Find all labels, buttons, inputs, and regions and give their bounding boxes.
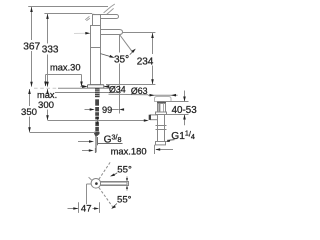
arrow 333 up xyxy=(46,14,49,19)
G1 1/4 leader line xyxy=(167,139,175,142)
drain upper tube xyxy=(158,103,166,112)
svg-text:55°: 55° xyxy=(117,165,132,176)
arrow 234 up xyxy=(151,33,154,38)
arrow 99 right (pointing left) xyxy=(119,108,124,111)
rod end tick (max.180) xyxy=(94,148,96,153)
svg-text:350: 350 xyxy=(21,107,37,118)
svg-text:333: 333 xyxy=(42,45,59,56)
threaded shank xyxy=(95,88,100,97)
faucet body seam xyxy=(91,47,101,49)
svg-text:35°: 35° xyxy=(114,54,129,65)
svg-text:Ø34: Ø34 xyxy=(109,85,126,95)
arrow arm-end up xyxy=(126,186,128,189)
faucet body column xyxy=(91,26,101,85)
55deg lower dashed ray xyxy=(99,188,114,209)
dimension 333 vertical line xyxy=(44,14,92,87)
arm end mini arrows xyxy=(126,176,128,190)
arrow 99 left (pointing right) xyxy=(90,108,95,111)
faucet cartridge cap xyxy=(93,15,101,26)
dimension 350 vertical line xyxy=(30,89,96,133)
drain flange xyxy=(155,97,172,104)
svg-text:47: 47 xyxy=(81,204,92,215)
svg-text:40-53: 40-53 xyxy=(172,105,198,116)
dimension Ø34 lines xyxy=(81,86,109,88)
arrow 367 down xyxy=(30,82,33,87)
arrow Ø34 left xyxy=(82,85,88,88)
svg-text:99: 99 xyxy=(102,105,112,115)
arrow max300 tip at drain inlet xyxy=(144,119,149,122)
spout vertical reference line xyxy=(119,35,121,114)
arrow 40-53 up xyxy=(183,115,186,120)
spout 35deg ray xyxy=(120,35,133,53)
dimension max.300 vertical line xyxy=(48,89,145,121)
arrow G114 left xyxy=(165,140,170,142)
svg-text:G11/4: G11/4 xyxy=(171,128,195,142)
counter bottom line xyxy=(55,92,121,94)
55deg upper dashed ray xyxy=(99,162,111,180)
pop-up rod xyxy=(95,136,96,153)
counter top line xyxy=(34,87,113,89)
arrow 35 right leader xyxy=(130,49,136,55)
max.180 right extension tick xyxy=(154,145,156,154)
detail pivot dot xyxy=(95,182,98,185)
arrow 350 down xyxy=(28,127,31,132)
svg-text:max.30: max.30 xyxy=(50,62,81,72)
dimension 367 vertical line xyxy=(28,7,108,87)
hose end tick (G3/8) xyxy=(97,137,99,145)
arrow max30 right down xyxy=(80,82,83,87)
svg-text:300: 300 xyxy=(38,100,54,111)
detail arm xyxy=(101,182,129,186)
arrow Ø34 right xyxy=(104,85,110,88)
svg-text:234: 234 xyxy=(137,56,154,67)
detail ball joint circle xyxy=(91,179,101,189)
arrow arm-end down xyxy=(126,178,128,181)
dimension Ø63 line xyxy=(109,94,178,95)
arrow max300 up xyxy=(46,89,49,94)
detail bracket xyxy=(87,177,92,204)
max.180 leader line xyxy=(82,150,89,152)
dimension 234 vertical line xyxy=(106,33,155,85)
arrow max300 down xyxy=(46,115,49,120)
arrow Ø63 left xyxy=(150,94,155,97)
drain shoulder nut xyxy=(156,112,167,115)
arrow body pointer xyxy=(74,32,90,35)
dimension 99 line xyxy=(85,109,119,111)
faucet lever handle xyxy=(93,14,119,18)
svg-text:367: 367 xyxy=(23,41,40,52)
dimension 47 lines xyxy=(68,202,100,213)
arrow 333 down xyxy=(46,82,49,87)
drain main tube xyxy=(156,115,167,142)
arrow 35 left leader xyxy=(101,54,115,58)
faucet spout xyxy=(101,30,123,35)
svg-text:max.: max. xyxy=(37,90,57,100)
arrow 47 left xyxy=(73,207,78,210)
dimension 40-53 lines xyxy=(165,91,189,126)
supply hoses xyxy=(94,99,99,136)
arrow diamond at hose end xyxy=(96,117,99,121)
faucet base escutcheon xyxy=(88,85,104,88)
arrow 350 up xyxy=(28,89,31,94)
arrow 40-53 down xyxy=(183,97,186,102)
arrow 47 right xyxy=(94,207,99,210)
arrow max180 right xyxy=(89,149,94,152)
arrow max180 left-pointing (right side) xyxy=(155,148,160,151)
svg-text:Ø63: Ø63 xyxy=(131,86,148,96)
drain bottom coupling xyxy=(156,142,166,145)
arrow Ø63 right xyxy=(171,94,176,97)
dimension max.30 line xyxy=(46,75,82,87)
arrowheads (black) xyxy=(28,7,186,210)
arrow 367 up xyxy=(30,7,33,12)
drain side outlet stub xyxy=(149,115,158,120)
G3/8 leader line xyxy=(78,142,123,144)
arrow 234 down xyxy=(151,79,154,84)
arrow 55 upper leader xyxy=(110,173,117,178)
arrow G38 right xyxy=(89,140,94,143)
svg-text:max.180: max.180 xyxy=(111,146,147,157)
faucet phantom raised lever ticks xyxy=(85,4,115,21)
arrow max30 left down xyxy=(44,82,47,87)
svg-text:55°: 55° xyxy=(117,194,132,205)
arrow 55 lower leader xyxy=(111,204,117,209)
max.180 right arrow line xyxy=(156,149,173,151)
